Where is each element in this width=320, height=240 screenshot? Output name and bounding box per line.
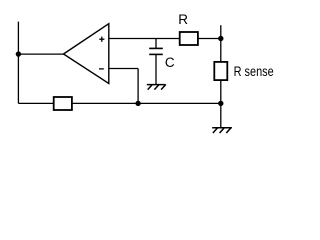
op-amp U1 — [64, 24, 109, 84]
wire op-amp output — [18, 53, 63, 55]
wire R to right rail — [198, 38, 221, 40]
wire capacitor stub top — [155, 39, 157, 49]
node feedback junction — [135, 101, 140, 106]
node output junction — [16, 51, 21, 56]
wire bottom left — [18, 102, 53, 104]
capacitor C — [149, 48, 163, 54]
resistor feedback — [54, 97, 72, 110]
wire inverting input — [109, 69, 138, 104]
label R sense — [234, 64, 274, 79]
svg-text:C: C — [165, 55, 175, 70]
wire right rail bottom — [220, 80, 222, 128]
svg-text:R: R — [178, 12, 188, 27]
label R — [178, 12, 188, 27]
resistor R — [180, 32, 198, 45]
node right rail top — [218, 36, 223, 41]
resistor R sense — [214, 62, 227, 80]
wire capacitor stub bottom — [155, 54, 157, 84]
svg-text:R sense: R sense — [234, 64, 274, 79]
ground bottom right — [212, 128, 232, 133]
label C — [165, 55, 175, 70]
wire right rail top stub — [220, 25, 222, 62]
wire bottom middle — [72, 102, 221, 104]
node right rail bottom — [218, 101, 223, 106]
wire noninverting input to node — [109, 38, 180, 40]
wire left rail vertical — [17, 22, 19, 104]
ground under capacitor — [147, 84, 166, 89]
